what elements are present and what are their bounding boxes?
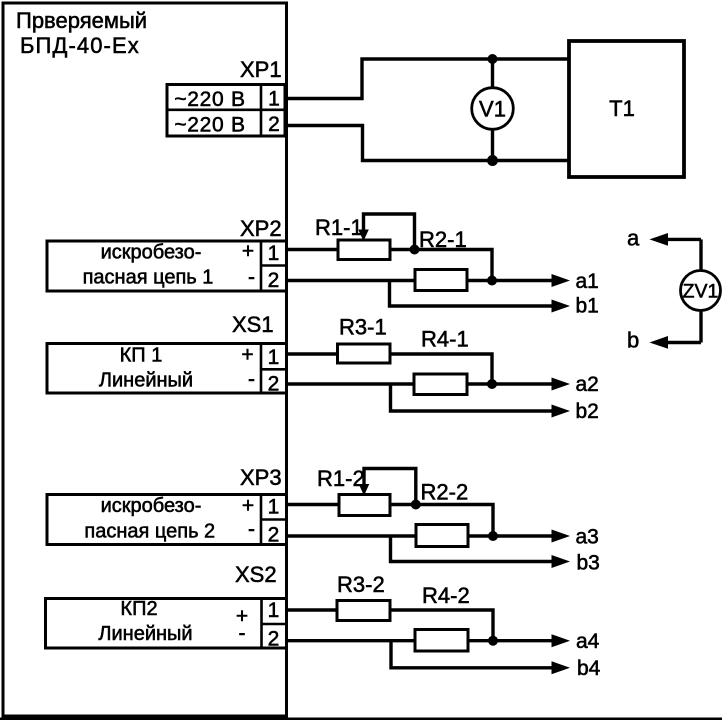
voltmeter ZV1 [681, 271, 721, 311]
svg-text:2: 2 [268, 373, 280, 396]
arrow a4 [552, 634, 571, 647]
svg-text:ZV1: ZV1 [683, 281, 719, 303]
svg-text:КП 1: КП 1 [120, 345, 163, 367]
arrow a [650, 233, 669, 246]
svg-text:~220 В: ~220 В [174, 114, 245, 137]
wire b1 tap [390, 281, 554, 307]
svg-text:-: - [248, 368, 255, 391]
svg-text:~220 В: ~220 В [174, 88, 245, 111]
svg-text:XP3: XP3 [240, 465, 282, 490]
node junction a3 [488, 531, 498, 541]
arrow a2 [552, 378, 571, 391]
svg-text:a2: a2 [576, 373, 599, 396]
svg-text:R3-2: R3-2 [337, 572, 385, 597]
resistor R4-2 [415, 630, 468, 652]
arrow b [650, 336, 669, 349]
svg-text:T1: T1 [609, 96, 635, 121]
svg-text:R2-1: R2-1 [419, 227, 467, 252]
wire XP1 pin1 to T1 top [285, 59, 569, 99]
bottom border line [0, 718, 722, 720]
svg-text:XS1: XS1 [232, 312, 274, 337]
wire XS2 pin2 through R4-2 to a4 [285, 639, 553, 642]
wire ZV1 top lead [699, 239, 702, 271]
svg-text:a: a [627, 226, 640, 251]
svg-text:Линейный: Линейный [98, 623, 192, 645]
svg-text:R2-2: R2-2 [421, 480, 469, 505]
wire XS1 pin1 through R3-1 to junction [285, 354, 492, 384]
svg-text:R3-1: R3-1 [339, 315, 387, 340]
wire XS1 pin2 through R4-1 to a2 [285, 382, 553, 385]
svg-text:b4: b4 [577, 657, 601, 680]
big box: device under test БПД-40-Ех [3, 3, 287, 716]
wire R1-2 wiper loop [364, 469, 416, 505]
arrow b4 [552, 661, 571, 674]
svg-text:R4-1: R4-1 [421, 327, 469, 352]
resistor R1-2 [339, 495, 390, 516]
svg-text:b3: b3 [577, 552, 600, 575]
arrow a3 [552, 530, 571, 543]
wire a to ZV1 [660, 238, 701, 241]
wire XP2 pin1 through R1-1 to junction [285, 250, 492, 281]
svg-text:XP1: XP1 [240, 57, 282, 82]
svg-text:a3: a3 [576, 526, 599, 549]
svg-text:-: - [248, 518, 255, 541]
svg-text:искробезо-: искробезо- [101, 242, 202, 264]
wire b3 tap [391, 536, 554, 562]
wire XS2 pin1 through R3-2 to junction [285, 610, 493, 641]
svg-text:a1: a1 [576, 270, 599, 293]
svg-text:искробезо-: искробезо- [101, 495, 202, 517]
voltmeter V1 [472, 88, 514, 130]
resistor R3-2 [337, 601, 390, 621]
svg-text:2: 2 [268, 113, 280, 136]
wire b to ZV1 [660, 341, 701, 344]
node junction R1-2 wiper [411, 500, 421, 510]
svg-text:1: 1 [268, 88, 280, 111]
svg-text:Прверяемый: Прверяемый [16, 8, 147, 33]
node junction a2 [487, 379, 497, 389]
svg-text:1: 1 [268, 496, 280, 519]
svg-text:+: + [241, 344, 253, 367]
svg-text:1: 1 [268, 242, 280, 265]
resistor R4-1 [414, 374, 467, 395]
svg-text:b2: b2 [576, 400, 599, 423]
resistor R2-2 [416, 525, 468, 547]
svg-text:1: 1 [268, 599, 280, 622]
svg-text:2: 2 [268, 628, 280, 651]
svg-text:Линейный: Линейный [99, 370, 193, 392]
wire XP3 pin2 through R2-2 to a3 [285, 534, 553, 537]
svg-text:R4-2: R4-2 [422, 583, 470, 608]
node bottom junction [487, 155, 498, 166]
wiper arrowhead R1-1 [358, 230, 369, 242]
wire b4 tap [391, 641, 553, 668]
svg-text:XP2: XP2 [240, 216, 282, 241]
svg-text:a4: a4 [576, 630, 600, 653]
wire ZV1 bottom lead [699, 311, 702, 343]
svg-text:1: 1 [268, 346, 280, 369]
svg-text:2: 2 [268, 269, 280, 292]
arrow b1 [552, 300, 571, 313]
svg-text:+: + [242, 240, 254, 263]
svg-text:+: + [242, 495, 254, 518]
wire XP1 pin2 to T1 bottom [285, 126, 569, 161]
wire XP3 pin1 through R1-2 to junction [285, 505, 493, 537]
wire R1-1 wiper loop [364, 214, 415, 250]
arrow b3 [552, 555, 571, 568]
node junction a4 [488, 636, 498, 646]
svg-text:-: - [239, 622, 246, 645]
svg-text:XS2: XS2 [235, 562, 277, 587]
svg-text:V1: V1 [479, 97, 506, 122]
resistor R2-1 [415, 270, 467, 291]
svg-text:2: 2 [268, 524, 280, 547]
arrow a1 [552, 274, 571, 287]
arrow b2 [552, 405, 571, 418]
node junction a1 [487, 276, 497, 286]
svg-text:пасная цепь 1: пасная цепь 1 [83, 267, 214, 289]
node junction R1-1 wiper [410, 245, 420, 255]
wire b2 tap [391, 384, 554, 411]
node top junction [488, 54, 498, 64]
transformer T1 [569, 41, 684, 177]
svg-text:-: - [248, 266, 255, 289]
svg-text:БПД-40-Ех: БПД-40-Ех [20, 33, 140, 58]
svg-text:КП2: КП2 [120, 598, 157, 620]
wire V1 branch [491, 59, 494, 161]
wiper arrowhead R1-2 [359, 484, 370, 496]
svg-text:R1-1: R1-1 [315, 215, 363, 240]
svg-text:R1-2: R1-2 [317, 466, 365, 491]
svg-text:b1: b1 [576, 295, 599, 318]
resistor R3-1 [338, 344, 391, 363]
svg-text:пасная цепь 2: пасная цепь 2 [84, 521, 215, 543]
wire XP2 pin2 through R2-1 to a1 [285, 279, 553, 282]
svg-text:b: b [627, 328, 639, 353]
resistor R1-1 [338, 240, 390, 260]
